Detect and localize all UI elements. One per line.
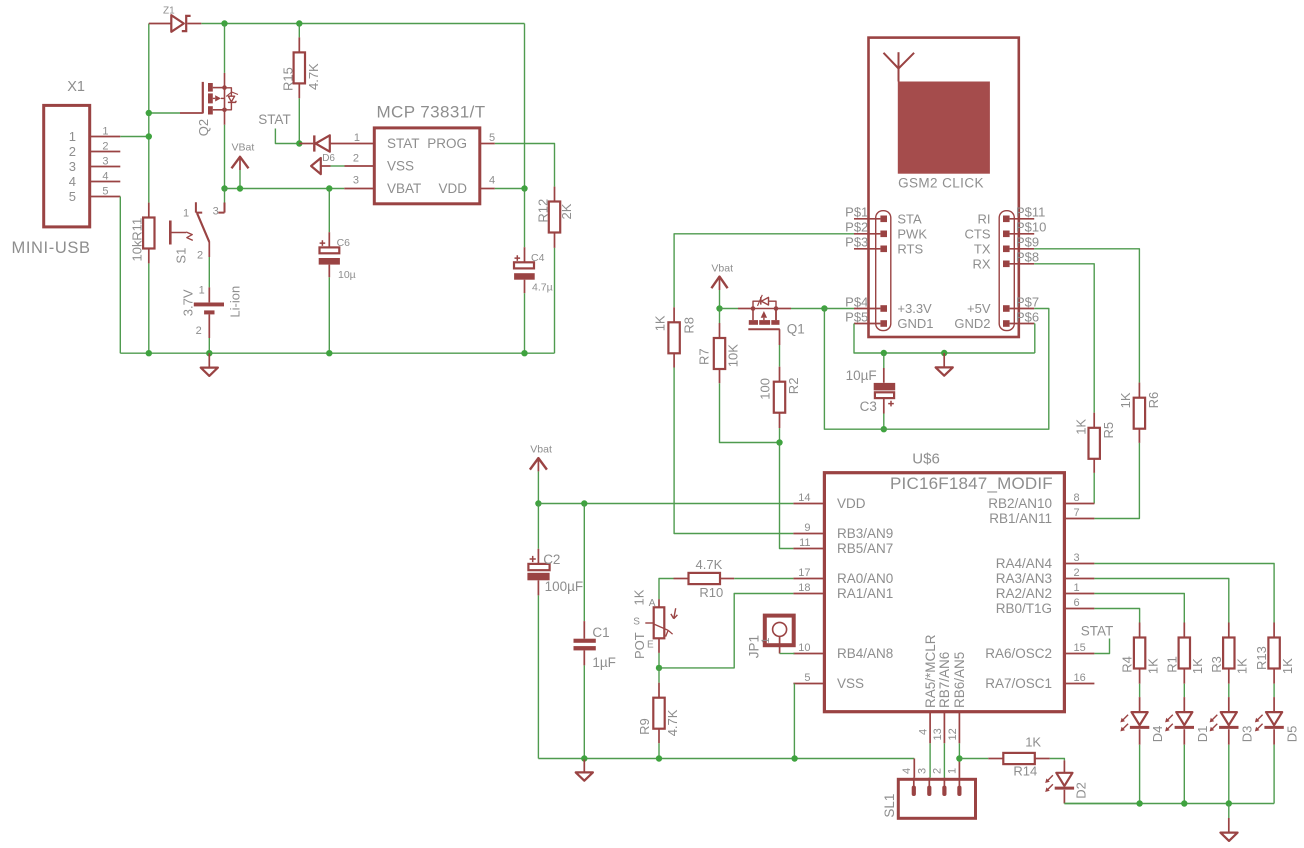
svg-text:Vbat: Vbat xyxy=(711,263,733,275)
resistor R4 1K xyxy=(1134,623,1145,684)
ground symbol below GSM2 xyxy=(936,353,953,376)
wire D4 to LED rail xyxy=(1139,745,1141,804)
GSM2 right pin stub xyxy=(1010,308,1035,310)
PIC pin 17 RA0/AN0 stub xyxy=(793,578,824,580)
svg-text:SL1: SL1 xyxy=(882,794,897,818)
junction C6 GND xyxy=(326,350,332,356)
wire PIC VSS down to GND rail xyxy=(793,684,795,759)
svg-text:P$10: P$10 xyxy=(1016,220,1046,235)
wire Q2 top pin xyxy=(224,24,226,73)
svg-text:100µF: 100µF xyxy=(545,579,584,594)
svg-text:13: 13 xyxy=(932,728,944,740)
GSM2 right pin stub xyxy=(1010,233,1035,235)
SL1 pin 2 xyxy=(942,778,946,796)
svg-text:R3: R3 xyxy=(1209,656,1224,673)
resistor R13 1K xyxy=(1268,623,1279,684)
svg-text:E: E xyxy=(647,639,654,650)
junction top rail / Q2 xyxy=(221,20,227,26)
GSM2 right pin stub xyxy=(1010,218,1035,220)
wire C3 to +3.3V rail xyxy=(883,414,885,430)
svg-text:4: 4 xyxy=(102,170,108,182)
wire PIC RB6 to SL1 pin1 xyxy=(958,743,960,758)
svg-text:VSS: VSS xyxy=(387,159,414,174)
svg-text:1: 1 xyxy=(183,207,189,219)
svg-text:1K: 1K xyxy=(1280,658,1295,674)
svg-text:17: 17 xyxy=(798,567,810,579)
plus sign C4 xyxy=(515,255,521,261)
svg-text:P$9: P$9 xyxy=(1016,235,1039,250)
wire R3 to D3 xyxy=(1228,684,1230,697)
wire VDD rail xyxy=(538,503,793,505)
GSM2 right pin square xyxy=(1003,231,1010,238)
svg-text:1: 1 xyxy=(199,285,205,297)
MCP VSS pin stub xyxy=(345,165,375,167)
svg-text:C3: C3 xyxy=(860,399,877,414)
LED D1 emission arrows xyxy=(1167,715,1173,721)
svg-text:RA1/AN1: RA1/AN1 xyxy=(837,586,893,601)
svg-text:PROG: PROG xyxy=(427,136,467,151)
svg-text:2: 2 xyxy=(932,768,944,774)
svg-text:3: 3 xyxy=(213,205,219,217)
svg-text:PWK: PWK xyxy=(897,226,927,241)
switch S1 pin3 wire xyxy=(224,189,226,203)
GSM2 left pin column outline xyxy=(876,211,891,331)
wire R7 to R2 node xyxy=(720,383,780,442)
MCP pin5 PROG wire xyxy=(480,144,555,187)
resistor R3 1K xyxy=(1223,623,1234,684)
svg-text:P$4: P$4 xyxy=(845,294,868,309)
svg-text:D6: D6 xyxy=(322,153,335,164)
wire RX net to R5 xyxy=(1034,264,1094,413)
svg-text:R13: R13 xyxy=(1254,646,1269,670)
transistor Q2 P-MOSFET xyxy=(180,73,238,125)
plus sign C2 xyxy=(530,556,536,562)
PIC pin 7 RB1/AN11 stub xyxy=(1064,518,1094,520)
wire R10 left to POT xyxy=(659,579,674,600)
wire Q2 gate net xyxy=(149,112,180,114)
PIC pin 14 VDD stub xyxy=(793,503,824,505)
svg-text:R9: R9 xyxy=(637,718,652,735)
svg-text:1: 1 xyxy=(354,132,360,144)
GSM2 right pin stub xyxy=(1010,263,1035,265)
wire node to PIC RB5 xyxy=(780,443,794,549)
plus sign C6 xyxy=(320,240,326,246)
svg-text:2K: 2K xyxy=(559,203,574,219)
wire Q2 drain to VBat net xyxy=(224,125,226,189)
svg-text:4: 4 xyxy=(489,175,495,187)
svg-text:P$5: P$5 xyxy=(845,309,868,324)
svg-text:RA0/AN0: RA0/AN0 xyxy=(837,571,893,586)
wire R13 to D5 xyxy=(1273,684,1275,697)
X1 pin stubs xyxy=(90,136,121,138)
GSM2 left pin square xyxy=(880,216,887,223)
wire C2 to GND rail xyxy=(537,595,539,758)
svg-text:JP1: JP1 xyxy=(746,635,761,658)
svg-text:POT: POT xyxy=(632,632,647,659)
wire R1 to D1 xyxy=(1183,684,1185,697)
PIC pin 15 RA6/OSC2 stub xyxy=(1064,653,1094,655)
svg-text:10k: 10k xyxy=(129,240,144,261)
wire C4 to GND rail xyxy=(524,293,526,353)
wire D5 to LED rail xyxy=(1273,745,1275,804)
wire GND rail to SL1 pin4 xyxy=(913,759,915,778)
SL1 pin 3 xyxy=(927,778,931,796)
svg-text:10K: 10K xyxy=(725,344,740,367)
GSM2 right pin column outline xyxy=(999,211,1014,331)
junction Vbat Q1 node xyxy=(716,305,722,311)
svg-text:14: 14 xyxy=(798,492,810,504)
svg-text:RB4/AN8: RB4/AN8 xyxy=(837,646,893,661)
wire PIC pin 2 to R3 xyxy=(1094,579,1228,623)
svg-text:1: 1 xyxy=(947,768,959,774)
svg-text:GSM2 CLICK: GSM2 CLICK xyxy=(898,175,984,190)
wire PIC RB7 to SL1 pin2 xyxy=(943,743,945,777)
svg-text:4: 4 xyxy=(901,768,913,774)
svg-text:1: 1 xyxy=(760,637,772,643)
svg-text:R1: R1 xyxy=(1164,656,1179,673)
svg-text:1K: 1K xyxy=(1118,392,1133,408)
svg-text:GND1: GND1 xyxy=(897,316,933,331)
capacitor C4 4.7u xyxy=(514,189,535,294)
wire VBat rail xyxy=(225,188,345,190)
LED D3 xyxy=(1219,697,1238,745)
resistor R14 1K xyxy=(988,753,1050,764)
svg-text:D5: D5 xyxy=(1285,726,1300,743)
resistor R7 10K xyxy=(714,309,725,384)
svg-text:2: 2 xyxy=(1074,567,1080,579)
svg-text:R5: R5 xyxy=(1101,422,1116,439)
connector X1 MINI-USB body xyxy=(44,105,90,226)
svg-text:3: 3 xyxy=(69,159,76,174)
svg-text:15: 15 xyxy=(1074,642,1086,654)
PIC pin 8 RB2/AN10 stub xyxy=(1064,503,1094,505)
svg-text:VSS: VSS xyxy=(837,676,864,691)
svg-text:1K: 1K xyxy=(1190,658,1205,674)
junction R9 GND xyxy=(656,755,662,761)
GSM2 left pin stub xyxy=(854,248,880,250)
wire R5 to PIC pin8 xyxy=(1093,473,1095,504)
junction D1 rail xyxy=(1181,800,1187,806)
wire R4 to D4 xyxy=(1139,684,1141,697)
svg-text:VDD: VDD xyxy=(438,181,467,196)
svg-text:2: 2 xyxy=(69,144,76,159)
PIC pin 9 RB3/AN9 stub xyxy=(793,533,824,535)
potentiometer POT 1K xyxy=(645,599,677,653)
svg-text:S: S xyxy=(633,617,640,628)
svg-text:CTS: CTS xyxy=(965,226,991,241)
svg-text:STAT: STAT xyxy=(387,136,420,151)
wire S1 to battery xyxy=(208,257,210,287)
supply symbol VBat arrow xyxy=(232,157,249,170)
capacitor C1 1uF xyxy=(574,504,596,666)
svg-text:1: 1 xyxy=(1074,582,1080,594)
svg-text:P$7: P$7 xyxy=(1016,294,1039,309)
junction C4 GND xyxy=(521,350,527,356)
junction R2/R7/RB5 node xyxy=(776,439,782,445)
junction R11 GND xyxy=(146,350,152,356)
PIC bottom pin RB7/AN6 stub xyxy=(943,712,945,744)
net stub STAT at pin15 xyxy=(1094,639,1109,654)
svg-text:D4: D4 xyxy=(1150,726,1165,743)
PIC pin 3 RA4/AN4 stub xyxy=(1064,563,1094,565)
wire GND bottom rail left xyxy=(120,352,554,354)
junction POT/R9/RA1 node xyxy=(656,665,662,671)
svg-text:P$3: P$3 xyxy=(845,235,868,250)
svg-text:10µ: 10µ xyxy=(338,269,356,281)
GSM2 left pin stub xyxy=(854,218,880,220)
svg-text:MINI-USB: MINI-USB xyxy=(12,239,91,257)
svg-text:3.7V: 3.7V xyxy=(181,289,196,316)
PIC pin 16 RA7/OSC1 stub xyxy=(1064,683,1094,685)
svg-text:U$6: U$6 xyxy=(912,451,940,468)
wire GND1 down to ground rail xyxy=(854,324,1035,354)
IC U2 MCP 73831/T body xyxy=(374,128,480,204)
svg-text:1: 1 xyxy=(102,125,108,137)
zener diode Z1 xyxy=(149,15,202,32)
jumper JP1 xyxy=(765,616,794,654)
svg-text:R10: R10 xyxy=(699,585,723,600)
capacitor C3 10uF xyxy=(874,353,896,414)
svg-text:5: 5 xyxy=(69,189,76,204)
svg-text:Q2: Q2 xyxy=(196,119,211,136)
wire PIC pin 6 to R4 xyxy=(1094,609,1139,623)
wire X1 pin5 to GND rail xyxy=(119,197,121,354)
wire LED ground rail xyxy=(1064,803,1274,805)
GSM2 left pin square xyxy=(880,231,887,238)
svg-text:D1: D1 xyxy=(1195,726,1210,743)
svg-text:Z1: Z1 xyxy=(163,6,175,17)
resistor R5 1K xyxy=(1089,413,1100,473)
junction D3 rail xyxy=(1226,800,1232,806)
svg-text:RA4/AN4: RA4/AN4 xyxy=(996,556,1053,571)
PIC pin 18 RA1/AN1 stub xyxy=(793,593,824,595)
junction RB6 / R14 net xyxy=(956,755,962,761)
wire C1 to GND rail xyxy=(583,665,585,758)
junction +3.3V node xyxy=(821,305,827,311)
svg-text:R11: R11 xyxy=(129,218,144,241)
svg-text:VDD: VDD xyxy=(837,496,866,511)
transistor Q1 P-MOSFET xyxy=(738,295,780,345)
junction D4 rail xyxy=(1136,800,1142,806)
junction C3 bottom xyxy=(881,426,887,432)
MCP pin4 VDD wire xyxy=(480,188,525,190)
junction ground symbol GSM xyxy=(941,350,947,356)
PIC pin 11 RB5/AN7 stub xyxy=(793,548,824,550)
wire R14 to D2 xyxy=(1050,759,1065,761)
SL1 pin 4 xyxy=(912,778,916,796)
GSM2 right pin square xyxy=(1003,320,1010,327)
GSM2 left pin stub xyxy=(854,233,880,235)
wire R11 to GND rail xyxy=(148,263,150,353)
junction top rail / R15 xyxy=(296,20,302,26)
svg-text:Li-ion: Li-ion xyxy=(228,286,243,318)
PIC pin 5 VSS stub xyxy=(793,683,824,685)
svg-text:1K: 1K xyxy=(631,589,646,605)
LED D1 xyxy=(1175,697,1194,745)
wire PIC pin 3 to R13 xyxy=(1094,564,1274,623)
svg-text:9: 9 xyxy=(804,522,810,534)
wire +3.3V / +5V / C3 rail xyxy=(824,309,1048,430)
svg-text:12: 12 xyxy=(947,728,959,740)
resistor R9 4.7K xyxy=(653,668,664,743)
wire Q1 drain to P$4 xyxy=(776,308,791,310)
svg-text:5: 5 xyxy=(102,185,108,197)
svg-text:10: 10 xyxy=(798,642,810,654)
LED D2 xyxy=(1055,760,1074,803)
wire R12 to GND rail xyxy=(554,248,556,353)
wire ground stub LED rail xyxy=(1228,804,1230,819)
PIC pin 1 RA2/AN2 stub xyxy=(1064,593,1094,595)
resistor R11 10k xyxy=(143,203,154,264)
svg-text:RX: RX xyxy=(972,256,990,271)
svg-text:4.7K: 4.7K xyxy=(306,63,321,90)
junction battery GND xyxy=(206,350,212,356)
svg-text:RTS: RTS xyxy=(897,241,923,256)
svg-text:1µF: 1µF xyxy=(592,655,616,670)
svg-text:3: 3 xyxy=(917,768,929,774)
svg-text:P$8: P$8 xyxy=(1016,250,1039,265)
svg-text:11: 11 xyxy=(799,537,810,549)
svg-text:5: 5 xyxy=(804,672,810,684)
wire D1 to LED rail xyxy=(1183,745,1185,804)
svg-text:4.7K: 4.7K xyxy=(696,557,723,572)
diode D6 xyxy=(299,135,374,151)
wire GND bottom rail (PIC area) xyxy=(538,758,914,760)
svg-text:1K: 1K xyxy=(1145,658,1160,674)
svg-text:RB0/T1G: RB0/T1G xyxy=(996,601,1052,616)
svg-text:4.7µ: 4.7µ xyxy=(532,281,553,293)
svg-text:C6: C6 xyxy=(337,237,351,249)
svg-text:+3.3V: +3.3V xyxy=(897,301,932,316)
module U1 GSM2 CLICK body xyxy=(869,38,1019,337)
resistor R2 100 xyxy=(774,367,785,428)
junction C1 GND / ground symbol xyxy=(581,755,587,761)
svg-text:MCP 73831/T: MCP 73831/T xyxy=(377,103,486,122)
GSM2 right pin stub xyxy=(1010,323,1035,325)
resistor R6 1K xyxy=(1134,383,1145,443)
GSM2 left pin square xyxy=(880,246,887,253)
svg-text:RA2/AN2: RA2/AN2 xyxy=(996,586,1052,601)
GSM2 right pin square xyxy=(1003,305,1010,312)
wire Vbat stem to VDD rail xyxy=(537,471,539,503)
LED D5 xyxy=(1264,697,1283,745)
junction VDD / C4 column xyxy=(521,185,527,191)
junction STAT node xyxy=(296,140,302,146)
svg-text:R6: R6 xyxy=(1146,392,1161,409)
svg-text:3: 3 xyxy=(102,155,108,167)
svg-text:18: 18 xyxy=(798,582,810,594)
svg-text:R2: R2 xyxy=(786,378,801,395)
ground symbol below C1 xyxy=(576,760,593,781)
ground symbol below battery xyxy=(208,353,210,367)
svg-text:RI: RI xyxy=(978,211,991,226)
wire Vbat to Q1 source xyxy=(720,308,739,310)
svg-text:RB2/AN10: RB2/AN10 xyxy=(988,496,1052,511)
wire D2 to LED rail xyxy=(1064,803,1139,805)
GSM2 right pin square xyxy=(1003,246,1010,253)
svg-text:1K: 1K xyxy=(1235,658,1250,674)
junction VDD rail / C1 xyxy=(581,500,587,506)
svg-text:TX: TX xyxy=(974,241,991,256)
wire R8 to PIC RB3 xyxy=(674,368,793,534)
svg-text:R7: R7 xyxy=(696,348,711,365)
svg-text:4: 4 xyxy=(918,729,930,735)
wire PWK net to R8 xyxy=(674,234,854,307)
svg-text:8: 8 xyxy=(1074,492,1080,504)
wire VUSB top rail xyxy=(148,24,150,203)
antenna symbol xyxy=(884,52,915,81)
wire VBat stem xyxy=(239,170,241,189)
junction VBat stem xyxy=(237,185,243,191)
GSM2 left pin square xyxy=(880,305,887,312)
svg-text:6: 6 xyxy=(1074,597,1080,609)
svg-text:C1: C1 xyxy=(592,625,609,640)
resistor R10 4.7K xyxy=(674,573,735,584)
LED D2 emission arrows xyxy=(1047,775,1053,781)
svg-text:STA: STA xyxy=(897,211,922,226)
wire TX net to R6 xyxy=(1034,249,1139,383)
svg-text:P$6: P$6 xyxy=(1016,309,1039,324)
LED D3 emission arrows xyxy=(1211,715,1217,721)
PIC pin 2 RA3/AN3 stub xyxy=(1064,578,1094,580)
svg-text:R4: R4 xyxy=(1120,656,1135,673)
PIC pin 10 RB4/AN8 stub xyxy=(793,653,824,655)
wire battery to GND xyxy=(208,338,210,353)
junction VDD rail / C2 xyxy=(535,500,541,506)
svg-text:5: 5 xyxy=(489,132,495,144)
PIC bottom pin RB6/AN5 stub xyxy=(958,712,960,744)
svg-text:RA5/*MCLR: RA5/*MCLR xyxy=(923,634,938,708)
svg-text:4: 4 xyxy=(69,174,76,189)
wire X1 pin1 to VUSB net xyxy=(120,136,149,138)
resistor R15 4.7K xyxy=(294,24,305,99)
GND2 stub extension xyxy=(1033,323,1036,325)
svg-text:10µF: 10µF xyxy=(846,368,877,383)
svg-text:2: 2 xyxy=(197,250,203,262)
svg-text:R15: R15 xyxy=(280,67,295,91)
svg-text:Q1: Q1 xyxy=(787,322,805,337)
switch S1 xyxy=(170,202,224,257)
wire R15 to STAT node xyxy=(298,98,300,143)
svg-text:Vbat: Vbat xyxy=(530,443,552,455)
svg-text:C2: C2 xyxy=(543,552,560,567)
svg-text:STAT: STAT xyxy=(258,112,291,127)
svg-text:16: 16 xyxy=(1074,672,1086,684)
wire STAT stub xyxy=(275,129,299,144)
svg-text:RA6/OSC2: RA6/OSC2 xyxy=(985,646,1052,661)
svg-text:RB5/AN7: RB5/AN7 xyxy=(837,541,893,556)
svg-text:GND2: GND2 xyxy=(954,316,990,331)
resistor R1 1K xyxy=(1179,623,1190,684)
GSM2 right pin square xyxy=(1003,261,1010,268)
svg-text:RA7/OSC1: RA7/OSC1 xyxy=(985,676,1052,691)
svg-text:3: 3 xyxy=(353,175,359,187)
svg-text:RB3/AN9: RB3/AN9 xyxy=(837,526,893,541)
LED D4 emission arrows xyxy=(1122,715,1128,721)
svg-text:P$1: P$1 xyxy=(845,205,868,220)
svg-text:R14: R14 xyxy=(1013,763,1037,778)
wire +3.3V node to P$4 stub xyxy=(824,308,854,310)
wire C6 to GND rail xyxy=(328,277,330,353)
svg-text:R12: R12 xyxy=(536,199,551,223)
svg-text:RB7/AN6: RB7/AN6 xyxy=(937,652,952,708)
svg-text:2: 2 xyxy=(196,325,202,337)
junction X1 pin1 xyxy=(146,133,152,139)
resistor R12 2K xyxy=(549,187,560,248)
wire R9 to GND rail xyxy=(658,743,660,758)
SL1 pin 1 xyxy=(957,778,961,796)
wire Q1 gate to R2 xyxy=(779,345,781,367)
